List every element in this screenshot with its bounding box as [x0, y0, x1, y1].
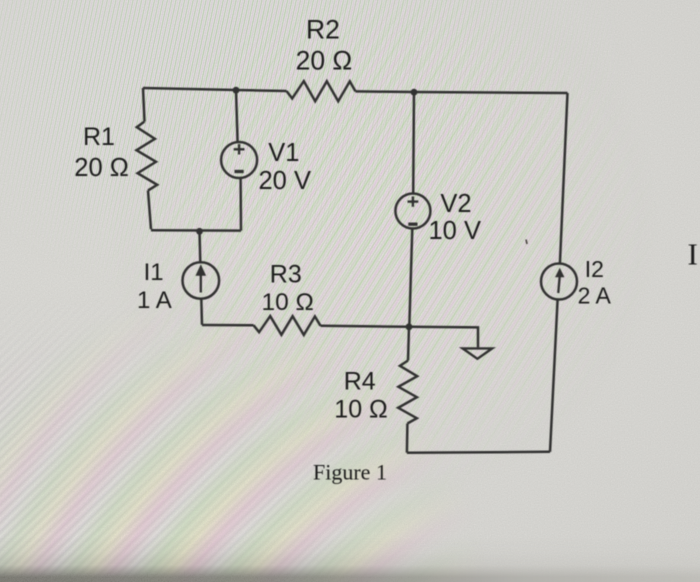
svg-text:20 Ω: 20 Ω: [74, 154, 129, 182]
svg-text:I1: I1: [144, 259, 164, 286]
svg-text:V1: V1: [268, 139, 299, 167]
svg-text:2 A: 2 A: [578, 283, 612, 309]
svg-text:20 V: 20 V: [259, 167, 311, 195]
svg-text:V2: V2: [440, 190, 471, 218]
svg-text:10 Ω: 10 Ω: [262, 289, 314, 316]
svg-text:10 V: 10 V: [429, 217, 481, 245]
svg-text:I2: I2: [585, 256, 604, 282]
svg-text:R3: R3: [270, 260, 302, 288]
svg-text:1 A: 1 A: [137, 287, 172, 314]
svg-text:20 Ω: 20 Ω: [296, 46, 353, 76]
svg-text:10 Ω: 10 Ω: [334, 395, 387, 423]
svg-text:I: I: [688, 237, 698, 272]
svg-text:R4: R4: [344, 367, 376, 395]
svg-text:R2: R2: [306, 15, 340, 45]
svg-text:R1: R1: [83, 123, 115, 151]
svg-text:Figure 1: Figure 1: [313, 460, 387, 485]
